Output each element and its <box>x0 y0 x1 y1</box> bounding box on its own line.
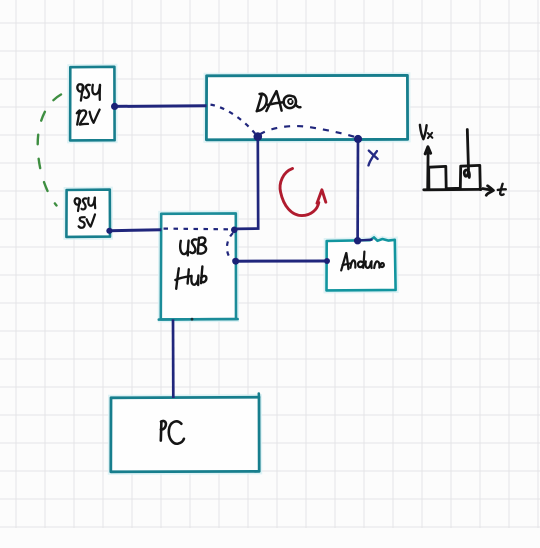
red rotation arrow <box>280 169 319 216</box>
waveform sketch <box>424 130 494 196</box>
pulse train <box>429 165 481 189</box>
box PSU 5V <box>66 190 110 237</box>
node Arduino top <box>354 237 361 244</box>
node 2 (DAQ bottom right) <box>354 135 362 143</box>
node PSU12V <box>111 103 118 110</box>
label t <box>498 184 506 195</box>
node hub top-right <box>231 227 238 234</box>
label PSU 12V (handwritten) <box>77 84 100 124</box>
box USB Hub <box>159 213 238 320</box>
box PC <box>111 394 259 472</box>
node hub right <box>232 258 239 265</box>
wire PSU12V to DAQ <box>115 104 207 108</box>
label USB Hub (handwritten) <box>175 237 206 288</box>
label Arduino (handwritten) <box>341 252 384 271</box>
node PSU5V <box>106 228 112 234</box>
dashed loop inside hub <box>227 233 234 260</box>
label PSU 5V (handwritten) <box>75 198 96 228</box>
wire hub to PC <box>172 319 175 398</box>
node Arduino left <box>324 258 330 264</box>
box PSU 12V <box>70 67 115 141</box>
dashed wire inside hub horizontal <box>164 228 230 231</box>
dashed wire node1 to node2 arc <box>260 126 357 137</box>
label X <box>369 151 378 166</box>
label DAQ (handwritten) <box>257 91 301 111</box>
box Arduino <box>327 237 396 290</box>
wire node2 down to Arduino <box>356 139 359 240</box>
wire PSU5V to hub <box>110 228 162 232</box>
box DAQ <box>206 75 407 139</box>
wire hub to Arduino <box>236 260 327 263</box>
glitch spike <box>464 130 469 178</box>
dashed wire DAQ-in curve <box>211 105 256 134</box>
y axis <box>426 153 429 190</box>
label Vx <box>420 125 433 139</box>
node 1 (DAQ bottom left) <box>253 132 262 141</box>
wire node1 down to hub <box>236 137 258 229</box>
x axis <box>424 188 481 191</box>
green dashed feedback curve <box>38 95 61 206</box>
wire over Arduino top <box>358 240 373 241</box>
label PC (handwritten) <box>161 421 184 444</box>
